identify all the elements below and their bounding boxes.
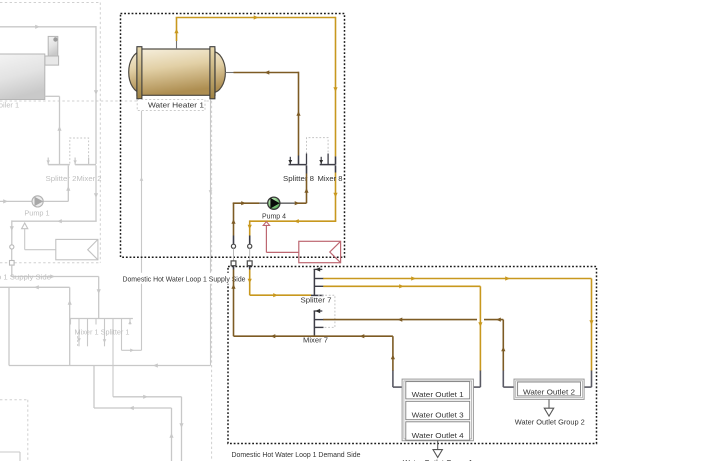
- svg-text:Boiler 1: Boiler 1: [0, 101, 19, 110]
- water outlet 2 box: [514, 379, 584, 399]
- faded wire: water heater source outlet (right port): [210, 100, 212, 366]
- svg-text:Mixer 1 Splitter 1: Mixer 1 Splitter 1: [75, 328, 130, 337]
- svg-text:Water Outlet 2: Water Outlet 2: [523, 388, 575, 397]
- faded connector link: [11, 249, 13, 261]
- brown wire: water outlet group 1 return via mixer 7 line: [234, 335, 393, 337]
- svg-text:Loop 1 Supply Side: Loop 1 Supply Side: [0, 273, 51, 282]
- svg-text:Pump 1: Pump 1: [24, 209, 49, 218]
- connector circle left (supply-demand interface): [233, 236, 235, 245]
- svg-text:Splitter 8: Splitter 8: [283, 174, 314, 183]
- mixer M8: [320, 164, 336, 166]
- pump P1 (faded): [0, 200, 32, 202]
- svg-text:Mixer 2: Mixer 2: [77, 174, 102, 183]
- splitter S7: [313, 269, 315, 295]
- dotted bypass S2-M2 (faded): [70, 138, 89, 164]
- faded demand-side dashed boundary (other loop): [0, 100, 212, 102]
- pink water use equipment box: [299, 241, 341, 262]
- dotted bypass S7-M7: [318, 295, 335, 327]
- faded wire: boiler top outlet to mixer 2: [0, 26, 96, 28]
- svg-text:Splitter 2: Splitter 2: [46, 174, 77, 183]
- faded partial box bottom-left: [0, 451, 20, 453]
- faded wire: mixer 2 outlet down-left to connector: [95, 165, 97, 221]
- faded wire: demand feed to comb: [11, 265, 13, 276]
- svg-text:Pump 4: Pump 4: [262, 211, 286, 220]
- splitter S8: [289, 164, 307, 166]
- faded connector circle (loop interface): [10, 245, 14, 249]
- gold wire: heater top to mixer 8 (supply out): [176, 18, 178, 42]
- supply side dotted boundary: [121, 14, 345, 258]
- brown wire: pump 4 to splitter 8: [295, 202, 307, 204]
- gold wire: splitter 7 branch to water outlet 2: [323, 278, 591, 280]
- gold wire: splitter 7 branch to water outlet group 1: [323, 285, 480, 287]
- water outlet group 1 tail triangle: [437, 441, 439, 450]
- faded demand return loop wires: [8, 287, 10, 365]
- water heater top port: [176, 41, 178, 49]
- connector circle right (supply-demand interface): [249, 236, 251, 245]
- pump P4: [259, 202, 268, 204]
- hook wire into outlet 2 right: [591, 371, 593, 388]
- demand side dotted boundary: [228, 267, 597, 444]
- label supply side: [122, 273, 248, 284]
- hook wire into outlet group1 left: [392, 371, 394, 388]
- brown wire: splitter 8 up to heater inlet: [234, 72, 299, 74]
- brown wire: water outlet 2 return to mixer 7: [323, 319, 477, 321]
- svg-text:Domestic Hot Water Loop 1 Supp: Domestic Hot Water Loop 1 Supply Side: [123, 274, 246, 283]
- faded water equipment triangle tap: [22, 223, 28, 229]
- svg-text:Domestic Hot Water Loop 1 Dema: Domestic Hot Water Loop 1 Demand Side: [232, 450, 361, 459]
- mixer M7: [313, 311, 315, 336]
- connector square right: [249, 248, 251, 261]
- faded wire: boiler return from splitter 2: [45, 95, 60, 97]
- faded staircase wires to lower zone: [93, 366, 95, 409]
- gold wire: interface down to splitter 7: [249, 270, 251, 296]
- hook wire into outlet group1 right: [479, 371, 481, 388]
- label demand side: [231, 448, 363, 459]
- faded connector square (loop interface): [10, 261, 15, 266]
- svg-text:Mixer 8: Mixer 8: [318, 174, 343, 183]
- water heater right port: [225, 72, 233, 74]
- pink wire: water use connection: [263, 222, 269, 226]
- dotted bypass S8-M8: [307, 138, 329, 154]
- faded dashed boundary bottom-left (other loop): [0, 399, 28, 401]
- svg-text:Water Outlet 3: Water Outlet 3: [412, 411, 464, 420]
- brown wire: interface riser to pump 4: [233, 203, 235, 235]
- svg-text:Water Outlet 4: Water Outlet 4: [412, 431, 464, 440]
- water outlet group 1 box: [402, 379, 473, 441]
- svg-text:Water Outlet 1: Water Outlet 1: [412, 390, 464, 399]
- faded supply-side dashed boundary (other loop): [0, 2, 100, 4]
- mixer M1 / splitter S1 comb (faded): [70, 318, 133, 320]
- svg-text:Water Outlet Group 2: Water Outlet Group 2: [515, 417, 585, 426]
- water outlet 2 tail triangle: [548, 399, 550, 408]
- label Water Heater 1: [139, 99, 205, 111]
- faded wire: water heater source inlet (left port): [141, 100, 143, 351]
- mixer M2 (faded): [75, 164, 96, 166]
- svg-text:Water Heater 1: Water Heater 1: [148, 100, 204, 109]
- gold wire: mixer 8 down-left to loop interface: [335, 165, 337, 172]
- faded water equipment box: [56, 239, 98, 259]
- brown wire: interface down to mixer 7 line: [233, 270, 235, 337]
- hook wire into outlet 2 left: [502, 371, 504, 388]
- connector square left: [233, 248, 235, 261]
- svg-text:Splitter 7: Splitter 7: [301, 295, 332, 304]
- splitter S2 (faded): [48, 164, 70, 166]
